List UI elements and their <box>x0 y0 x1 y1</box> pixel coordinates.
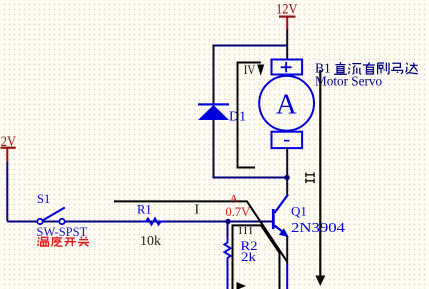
loop III arrow <box>237 282 247 289</box>
resistor R1 <box>137 203 167 250</box>
流 <box>348 64 361 75</box>
关 <box>78 237 89 247</box>
svg-text:I: I <box>195 203 200 218</box>
svg-text:S1: S1 <box>37 192 50 206</box>
svg-text:A: A <box>230 192 239 206</box>
loop label I line <box>114 201 287 261</box>
svg-text:12V: 12V <box>276 2 298 18</box>
svg-text:0.7V: 0.7V <box>226 205 251 219</box>
温 <box>38 237 49 246</box>
wire main base rail <box>7 221 273 223</box>
loop II long arrow <box>319 70 321 276</box>
diode D1 <box>198 103 246 124</box>
wire flyback return <box>213 177 288 179</box>
wire emitter down <box>286 236 288 265</box>
svg-text:2k: 2k <box>241 249 257 264</box>
loop IV arrow <box>257 65 264 76</box>
svg-text:10k: 10k <box>140 234 161 249</box>
wire top rail to diode <box>214 45 288 47</box>
达 <box>406 63 418 74</box>
label 温度开关 (temperature switch, pseudo glyphs red) <box>38 237 90 247</box>
wire 12V to motor + <box>286 30 288 60</box>
node junction (collector / flyback) <box>284 175 289 180</box>
度 <box>52 237 63 247</box>
wire diode anode drop <box>213 120 215 177</box>
CJK pseudo glyphs for 直流有刷马达 <box>334 62 418 74</box>
loop label II (rotated) <box>305 173 315 184</box>
wire R2 strand top <box>227 222 229 239</box>
svg-text:Q1: Q1 <box>291 204 307 219</box>
svg-text:III: III <box>239 225 255 237</box>
motor B1 <box>259 60 314 149</box>
svg-text:R1: R1 <box>137 203 152 217</box>
switch S1 <box>37 192 88 239</box>
wire left 12V drop <box>6 162 8 222</box>
node junction (base node) <box>225 219 230 224</box>
svg-text:2N3904: 2N3904 <box>291 220 345 235</box>
svg-text:A: A <box>276 89 297 121</box>
svg-text:Motor Servo: Motor Servo <box>315 74 382 89</box>
label B1 motor <box>315 61 382 89</box>
马 <box>391 63 402 74</box>
transistor Q1 <box>272 195 345 238</box>
svg-text:IV: IV <box>244 63 256 77</box>
直 <box>334 62 347 74</box>
power symbol 12V (left) <box>0 134 16 162</box>
wire diode cathode drop <box>213 45 215 105</box>
刷 <box>378 63 389 75</box>
loop III outline <box>233 225 280 289</box>
power symbol 12V (top) <box>276 2 298 31</box>
wire emitter pin bottom (blue) <box>286 265 288 289</box>
有 <box>363 62 375 74</box>
resistor R2 <box>224 238 257 289</box>
开 <box>65 238 76 246</box>
wire motor - to collector <box>286 148 288 195</box>
loop IV bracket <box>238 63 261 168</box>
